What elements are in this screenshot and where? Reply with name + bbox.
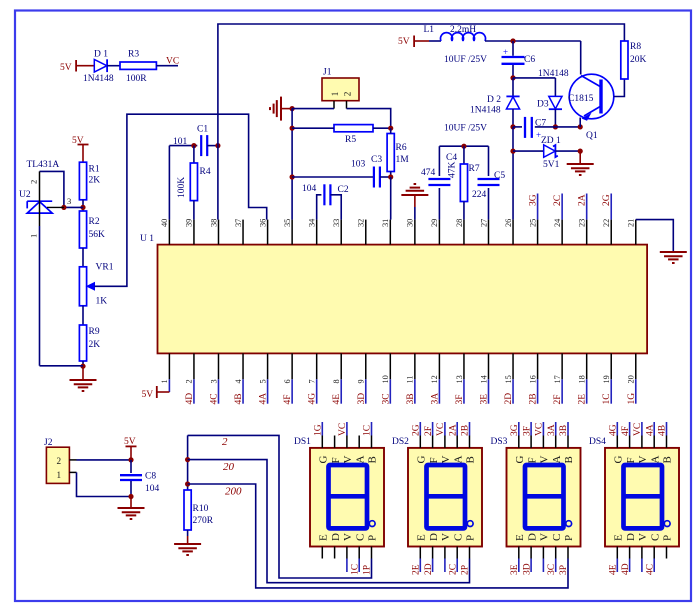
capacitor C7 10UF/25V	[513, 126, 522, 128]
pin 21 ground	[636, 220, 674, 252]
svg-text:P: P	[367, 535, 379, 541]
U1 pin 17	[561, 353, 563, 379]
DS3 bottom pin V	[542, 547, 544, 559]
resistor R6 1M	[387, 134, 394, 172]
svg-text:R6: R6	[396, 143, 407, 153]
svg-text:1: 1	[330, 91, 340, 96]
svg-text:4B: 4B	[658, 425, 668, 436]
svg-text:VC: VC	[633, 423, 643, 436]
svg-text:11: 11	[406, 376, 415, 384]
U1 pin 18	[586, 353, 588, 379]
svg-text:2: 2	[29, 180, 39, 184]
TL431 ref pin lead	[47, 206, 64, 208]
svg-text:C3: C3	[371, 155, 382, 165]
J1 pin2 lead	[346, 101, 348, 109]
svg-text:P: P	[563, 535, 575, 541]
net 3A stub on pin 12	[438, 379, 440, 403]
svg-text:37: 37	[234, 219, 243, 227]
svg-text:R2: R2	[89, 217, 100, 227]
svg-text:C: C	[354, 534, 366, 541]
svg-text:2.2mH: 2.2mH	[450, 25, 476, 35]
svg-text:16: 16	[528, 375, 537, 383]
svg-text:DS1: DS1	[294, 437, 311, 447]
svg-text:D: D	[330, 533, 342, 541]
svg-text:G: G	[514, 456, 526, 464]
svg-text:1: 1	[29, 234, 39, 238]
svg-text:V: V	[342, 456, 354, 464]
DS4 bottom pin P	[666, 547, 668, 559]
svg-text:2F: 2F	[424, 426, 434, 436]
U1 pin 16	[537, 353, 539, 379]
wire 5V to D1	[76, 65, 94, 67]
svg-text:4A: 4A	[259, 393, 269, 405]
junction	[128, 494, 133, 499]
DS4 top pin B	[666, 436, 668, 448]
svg-text:F: F	[428, 457, 440, 463]
svg-text:2P: 2P	[461, 565, 471, 575]
svg-text:E: E	[318, 534, 330, 541]
svg-text:1: 1	[57, 470, 62, 480]
5V power at C8	[126, 445, 137, 447]
svg-text:3B: 3B	[406, 393, 416, 404]
junction	[388, 126, 393, 131]
svg-text:4A: 4A	[645, 424, 655, 436]
svg-text:4C: 4C	[645, 564, 655, 575]
svg-text:G: G	[318, 456, 330, 464]
wire to R5	[292, 127, 334, 129]
svg-text:5V: 5V	[398, 37, 410, 47]
emitter wire	[579, 118, 581, 127]
DS3 bottom pin E	[518, 547, 520, 559]
svg-text:R7: R7	[469, 164, 480, 174]
diode D3 1N4148	[554, 78, 556, 97]
svg-text:104: 104	[145, 484, 160, 494]
U1 pin 35	[291, 220, 293, 245]
svg-text:100K: 100K	[177, 177, 187, 198]
svg-text:4F: 4F	[283, 394, 293, 404]
zener diode ZD1 5V1	[512, 127, 514, 151]
net 2G stub on pin 22	[610, 194, 612, 220]
wire R4 to pin 39	[193, 201, 195, 220]
junction	[185, 457, 190, 462]
DS4 bottom pin V	[641, 547, 643, 559]
DS1 top pin V	[346, 436, 348, 448]
svg-text:38: 38	[209, 219, 218, 227]
svg-text:C: C	[452, 534, 464, 541]
net 3D stub on pin 9	[365, 379, 367, 403]
svg-text:VC: VC	[338, 423, 348, 436]
svg-text:22: 22	[602, 219, 611, 227]
wire to D3	[513, 77, 555, 79]
svg-text:J1: J1	[323, 68, 332, 78]
U1 pin 15	[512, 353, 514, 379]
junction C6 top	[510, 38, 515, 43]
net 3E stub on pin 14	[487, 379, 489, 403]
wire J2 pin2 to C8	[77, 459, 132, 461]
net 4B stub on pin 4	[242, 379, 244, 403]
svg-text:12: 12	[430, 375, 439, 383]
wire R1 to node 3	[82, 200, 84, 211]
wire pin35 net to C3	[292, 176, 374, 178]
U1 pin 33	[340, 220, 342, 245]
capacitor C1 101	[200, 135, 202, 156]
svg-text:1P: 1P	[363, 565, 373, 575]
net 4G stub on pin 7	[316, 379, 318, 403]
ground	[270, 97, 281, 121]
U1 pin 28	[463, 220, 465, 245]
svg-text:33: 33	[332, 219, 341, 227]
DS2 bottom pin P	[469, 547, 471, 559]
junction	[61, 205, 66, 210]
DS1 bottom pin E	[321, 547, 323, 559]
junction	[510, 149, 515, 154]
junction ground node	[80, 364, 85, 369]
capacitor C8 104	[130, 460, 132, 473]
J1 pin1 lead	[333, 101, 335, 109]
U1 pin 4	[242, 353, 244, 379]
svg-text:D 1: D 1	[94, 50, 108, 60]
J2 pin2 lead	[69, 459, 76, 461]
svg-text:ZD 1: ZD 1	[541, 136, 561, 146]
svg-text:A: A	[649, 456, 661, 464]
svg-text:U2: U2	[19, 190, 31, 200]
resistor R9 2K	[79, 325, 86, 361]
resistor R2 56K	[79, 211, 86, 248]
net 2A stub on pin 23	[586, 194, 588, 220]
wire pin 26 up to ZD1 node	[512, 151, 514, 220]
svg-text:7: 7	[307, 379, 316, 383]
wire D1 to R3	[107, 65, 120, 67]
wire to Q1 emitter node	[555, 126, 580, 128]
junction	[215, 143, 220, 148]
DS2 bottom pin V	[444, 547, 446, 559]
DS4 bottom pin C	[653, 547, 655, 559]
net 2B stub on pin 16	[537, 379, 539, 403]
resistor R4 100K	[190, 163, 197, 201]
svg-text:B: B	[367, 456, 379, 463]
U1 pin 26	[512, 220, 514, 245]
DS2 bottom pin C	[456, 547, 458, 559]
DS4 top pin A	[653, 436, 655, 448]
U1 pin 25	[537, 220, 539, 245]
svg-text:F: F	[330, 457, 342, 463]
wire J2 pin1 to gnd node	[77, 472, 132, 496]
U1 pin 9	[365, 353, 367, 379]
svg-text:J2: J2	[44, 438, 53, 448]
svg-text:2D: 2D	[424, 563, 434, 575]
svg-text:19: 19	[602, 375, 611, 383]
wire R3 to VC	[156, 65, 178, 67]
svg-text:2: 2	[57, 456, 62, 466]
svg-text:2E: 2E	[578, 394, 588, 405]
svg-text:4G: 4G	[609, 424, 619, 436]
7-segment display DS1	[310, 448, 384, 547]
wire J1 pin2 to R6 node	[347, 109, 391, 129]
svg-text:3D: 3D	[357, 393, 367, 405]
svg-text:1N4148: 1N4148	[83, 74, 114, 84]
wire VR1 wiper to pin 36	[95, 114, 267, 286]
junction	[388, 174, 393, 179]
svg-text:E: E	[514, 534, 526, 541]
svg-text:40: 40	[160, 219, 169, 227]
U1 pin 23	[586, 220, 588, 245]
junction	[510, 124, 515, 129]
svg-text:E: E	[416, 534, 428, 541]
svg-text:21: 21	[627, 219, 636, 227]
svg-text:V: V	[440, 533, 452, 541]
svg-text:5V: 5V	[124, 437, 136, 447]
svg-text:3D: 3D	[522, 563, 532, 575]
connector J2	[46, 447, 69, 483]
svg-text:4E: 4E	[332, 394, 342, 405]
junction	[290, 106, 295, 111]
svg-text:20: 20	[627, 375, 636, 383]
wire L1 to Q1 collector	[485, 40, 581, 42]
svg-text:D: D	[428, 533, 440, 541]
5V supply at pin 1	[168, 379, 170, 392]
net 1G stub on pin 20	[635, 379, 637, 403]
svg-text:4E: 4E	[609, 564, 619, 575]
svg-text:27: 27	[479, 219, 488, 227]
wire down to pin 35	[291, 109, 293, 220]
U1 pin 36	[267, 220, 269, 245]
svg-text:1G: 1G	[627, 393, 637, 405]
DS3 top pin A	[555, 436, 557, 448]
svg-text:270R: 270R	[193, 516, 214, 526]
svg-text:C1815: C1815	[568, 94, 594, 104]
wire down to pin 31	[390, 177, 392, 220]
DS2 top pin B	[469, 436, 471, 448]
svg-text:C: C	[649, 534, 661, 541]
junction	[578, 149, 583, 154]
diode D1 1N4148	[94, 59, 107, 72]
wire across C4 R7 C5	[439, 145, 488, 147]
svg-text:2B: 2B	[461, 425, 471, 436]
svg-text:C: C	[551, 534, 563, 541]
net 4D stub on pin 2	[193, 379, 195, 403]
svg-text:V: V	[342, 533, 354, 541]
svg-text:C5: C5	[494, 171, 505, 181]
svg-text:34: 34	[307, 218, 316, 227]
wire gnd to J1 pin1	[292, 108, 334, 110]
svg-text:32: 32	[357, 219, 366, 227]
svg-text:101: 101	[173, 137, 188, 147]
svg-text:104: 104	[302, 184, 317, 194]
svg-text:R3: R3	[128, 50, 139, 60]
DS4 bottom pin E	[616, 547, 618, 559]
TL431 lead through symbol	[39, 201, 41, 226]
DS1 digit glyph	[329, 465, 368, 528]
ground above pin 30	[414, 207, 416, 220]
svg-text:R10: R10	[193, 504, 209, 514]
svg-text:B: B	[662, 456, 674, 463]
DS1 top pin A	[358, 436, 360, 448]
net 2E stub on pin 18	[586, 379, 588, 403]
resistor R1 2K	[79, 162, 86, 200]
svg-text:2: 2	[185, 379, 194, 383]
svg-text:C2: C2	[338, 185, 349, 195]
DS4 top pin F	[629, 436, 631, 448]
U1 pin 21	[635, 220, 637, 245]
svg-text:39: 39	[185, 219, 194, 227]
svg-text:1: 1	[160, 379, 169, 383]
net 2F stub on pin 17	[561, 379, 563, 403]
net 2C stub on pin 24	[561, 194, 563, 220]
wire to R4 top	[193, 146, 195, 163]
svg-text:R5: R5	[345, 135, 356, 145]
svg-text:5: 5	[258, 379, 267, 383]
junction	[461, 144, 466, 149]
svg-text:3: 3	[209, 379, 218, 383]
svg-text:E: E	[613, 534, 625, 541]
U1 pin 7	[316, 353, 318, 379]
svg-text:474: 474	[421, 168, 436, 178]
svg-text:8: 8	[332, 379, 341, 383]
ground below Q1	[567, 164, 594, 175]
TL431 pin 2 lead	[39, 171, 41, 201]
U1 pin 12	[438, 353, 440, 379]
svg-text:2A: 2A	[578, 194, 588, 206]
capacitor C4 474	[438, 146, 440, 176]
svg-text:1K: 1K	[96, 297, 108, 307]
resistor R3 100R	[120, 62, 156, 69]
svg-text:4B: 4B	[234, 393, 244, 404]
svg-text:1N4148: 1N4148	[538, 69, 569, 79]
svg-text:G: G	[613, 456, 625, 464]
DS4 digit glyph	[624, 465, 663, 528]
svg-text:6: 6	[283, 379, 292, 383]
DS1 top pin G	[321, 436, 323, 448]
svg-text:26: 26	[504, 219, 513, 227]
svg-text:31: 31	[381, 219, 390, 227]
svg-text:+: +	[503, 47, 508, 57]
DS3 top pin B	[567, 436, 569, 448]
DS3 top pin V	[542, 436, 544, 448]
svg-text:B: B	[563, 456, 575, 463]
svg-text:18: 18	[577, 375, 586, 383]
net 3G stub on pin 25	[537, 194, 539, 220]
net 3F stub on pin 13	[463, 379, 465, 403]
U1 pin 5	[267, 353, 269, 379]
svg-text:3A: 3A	[430, 393, 440, 405]
svg-text:A: A	[452, 456, 464, 464]
svg-text:P: P	[662, 535, 674, 541]
DS2 top pin V	[444, 436, 446, 448]
svg-text:4D: 4D	[621, 563, 631, 575]
wire down to collector	[580, 41, 582, 75]
U1 pin 38	[217, 220, 219, 245]
svg-text:DS2: DS2	[392, 437, 409, 447]
svg-text:14: 14	[479, 374, 488, 383]
svg-text:U 1: U 1	[140, 234, 154, 244]
U1 pin 3	[217, 353, 219, 379]
svg-text:C6: C6	[524, 55, 535, 65]
diode D2 1N4148	[512, 78, 514, 97]
wire pin40 up	[168, 146, 170, 220]
svg-text:9: 9	[357, 379, 366, 383]
U1 pin 19	[610, 353, 612, 379]
svg-text:2B: 2B	[529, 393, 539, 404]
svg-text:1C: 1C	[350, 564, 360, 575]
U1 pin 24	[561, 220, 563, 245]
svg-text:30: 30	[406, 219, 415, 227]
wire VR1 to R9	[82, 306, 84, 325]
DS3 top pin F	[530, 436, 532, 448]
capacitor C6 10UF/25V electrolytic	[512, 41, 514, 56]
svg-text:36: 36	[258, 219, 267, 227]
DS1 top pin F	[334, 436, 336, 448]
svg-text:47K: 47K	[448, 162, 458, 179]
wire C1 right to pin38 node	[207, 145, 218, 147]
svg-text:R9: R9	[89, 327, 100, 337]
U1 pin 34	[316, 220, 318, 245]
svg-text:2K: 2K	[89, 340, 101, 350]
svg-text:20K: 20K	[630, 55, 647, 65]
junction	[578, 124, 583, 129]
digit select bus 200	[188, 484, 568, 588]
DS3 bottom pin C	[555, 547, 557, 559]
inductor L1 2.2mH	[441, 33, 486, 41]
base wire to R8	[614, 79, 625, 97]
digit select bus 2	[188, 435, 372, 578]
junction	[128, 457, 133, 462]
svg-text:28: 28	[455, 219, 464, 227]
svg-text:VC: VC	[166, 57, 179, 67]
ground below R10	[174, 544, 201, 555]
U1 pin 20	[635, 353, 637, 379]
svg-text:G: G	[416, 456, 428, 464]
svg-text:1M: 1M	[396, 155, 410, 165]
DS1 bottom pin C	[358, 547, 360, 559]
svg-text:VC: VC	[436, 423, 446, 436]
net 4A stub on pin 5	[267, 379, 269, 403]
svg-text:15: 15	[504, 375, 513, 383]
DS2 bottom pin E	[419, 547, 421, 559]
DS1 bottom pin P	[371, 547, 373, 559]
DS2 top pin G	[419, 436, 421, 448]
svg-text:29: 29	[430, 219, 439, 227]
resistor R5	[334, 125, 373, 132]
net 3B stub on pin 11	[414, 379, 416, 403]
svg-text:10: 10	[381, 375, 390, 383]
net 4E stub on pin 8	[340, 379, 342, 403]
svg-text:17: 17	[553, 375, 562, 383]
wire R9 to ground	[82, 361, 84, 366]
svg-text:5V: 5V	[142, 390, 154, 400]
DS3 digit glyph	[525, 465, 564, 528]
svg-text:2G: 2G	[412, 424, 422, 436]
svg-text:V: V	[637, 533, 649, 541]
svg-text:2: 2	[343, 91, 353, 96]
DS3 bottom pin P	[567, 547, 569, 559]
5V power	[72, 136, 89, 146]
svg-text:D3: D3	[537, 100, 549, 110]
connector J1	[322, 78, 359, 101]
resistor R8 20K	[621, 41, 628, 79]
U1 pin 27	[487, 220, 489, 245]
svg-text:TL431A: TL431A	[27, 160, 60, 170]
svg-text:Q1: Q1	[586, 131, 598, 141]
svg-text:C8: C8	[145, 472, 156, 482]
capacitor C5 224	[487, 146, 489, 176]
7-segment display DS4	[605, 448, 679, 547]
svg-text:200: 200	[225, 486, 242, 498]
transistor Q1 C1815	[569, 74, 614, 119]
U1 pin 11	[414, 353, 416, 379]
wire anode to ground node	[40, 365, 84, 367]
svg-text:1N4148: 1N4148	[470, 106, 501, 116]
svg-text:35: 35	[283, 219, 292, 227]
